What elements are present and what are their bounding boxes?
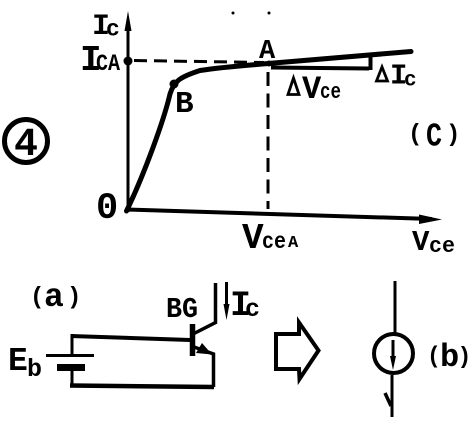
label VceA under axis xyxy=(242,218,299,259)
current source circle xyxy=(374,334,413,373)
bottom arrowhead barb xyxy=(385,393,391,406)
wire: bottom horizontal (battery to emitter) xyxy=(70,386,214,388)
current source bottom wire xyxy=(391,375,394,417)
svg-text:(: ( xyxy=(427,344,441,370)
svg-text:CA: CA xyxy=(96,51,120,77)
svg-text:V: V xyxy=(302,71,322,108)
point A dot xyxy=(266,61,272,67)
axis label ICA xyxy=(80,40,120,81)
transistor BG base bar xyxy=(190,324,196,356)
svg-text:0: 0 xyxy=(96,188,118,230)
axis label Ic (top) xyxy=(92,10,120,44)
svg-text:a: a xyxy=(44,279,64,316)
y-axis (Ic axis) xyxy=(125,11,132,212)
wire: top horizontal (battery to transistor base) xyxy=(71,336,191,340)
battery Eb short plate xyxy=(57,364,85,371)
svg-text:4: 4 xyxy=(14,123,38,168)
x-axis (Vce axis) xyxy=(126,210,442,225)
wire: left vertical top (battery to top wire) xyxy=(71,334,74,356)
label Eb xyxy=(8,343,42,384)
current source top wire xyxy=(394,281,397,335)
slope triangle vertical leg xyxy=(369,53,373,70)
characteristic curve xyxy=(127,52,412,212)
svg-text:ce: ce xyxy=(320,80,341,105)
dashed vertical line A to VceA xyxy=(267,72,270,209)
svg-text:): ) xyxy=(458,344,472,370)
battery Eb long plate xyxy=(46,354,94,357)
svg-text:E: E xyxy=(8,343,28,380)
wire: left vertical bottom (battery to bottom wire) xyxy=(71,368,74,387)
label Vce at axis end xyxy=(412,226,455,259)
svg-text:(: ( xyxy=(408,122,422,149)
svg-text:c: c xyxy=(245,295,260,324)
block arrow (equivalence) xyxy=(276,323,319,380)
svg-text:c: c xyxy=(106,17,120,43)
svg-text:ce: ce xyxy=(429,234,455,259)
svg-text:BG: BG xyxy=(166,293,198,326)
svg-text:B: B xyxy=(175,87,194,122)
label Ic (circuit) xyxy=(230,286,260,326)
figure number circle 4 xyxy=(5,120,48,169)
label delta-Ic xyxy=(377,60,417,93)
point B dot xyxy=(170,80,179,89)
node dot on y-axis at ICA xyxy=(124,57,133,66)
transistor BG emitter lead xyxy=(194,347,214,387)
svg-text:b: b xyxy=(440,339,459,376)
svg-text:V: V xyxy=(242,218,264,259)
speck noise dots xyxy=(232,12,235,15)
transistor BG collector lead xyxy=(194,283,216,334)
svg-text:A: A xyxy=(288,234,299,253)
Ic current arrow (collector current) xyxy=(224,282,230,320)
svg-text:b: b xyxy=(27,355,42,384)
label delta-Vce xyxy=(288,71,341,108)
svg-text:c: c xyxy=(404,70,417,93)
svg-text:(: ( xyxy=(30,285,44,312)
svg-text:ce: ce xyxy=(262,229,286,255)
svg-text:): ) xyxy=(67,285,81,312)
svg-text:A: A xyxy=(259,37,276,67)
svg-text:C: C xyxy=(426,119,442,156)
transistor BG emitter arrowhead xyxy=(196,343,212,355)
current source internal arrow xyxy=(390,340,396,370)
dashed horizontal line ICA to A xyxy=(134,61,264,63)
slope triangle horizontal leg xyxy=(271,68,369,69)
svg-text:V: V xyxy=(412,226,430,259)
svg-text:): ) xyxy=(446,122,460,149)
